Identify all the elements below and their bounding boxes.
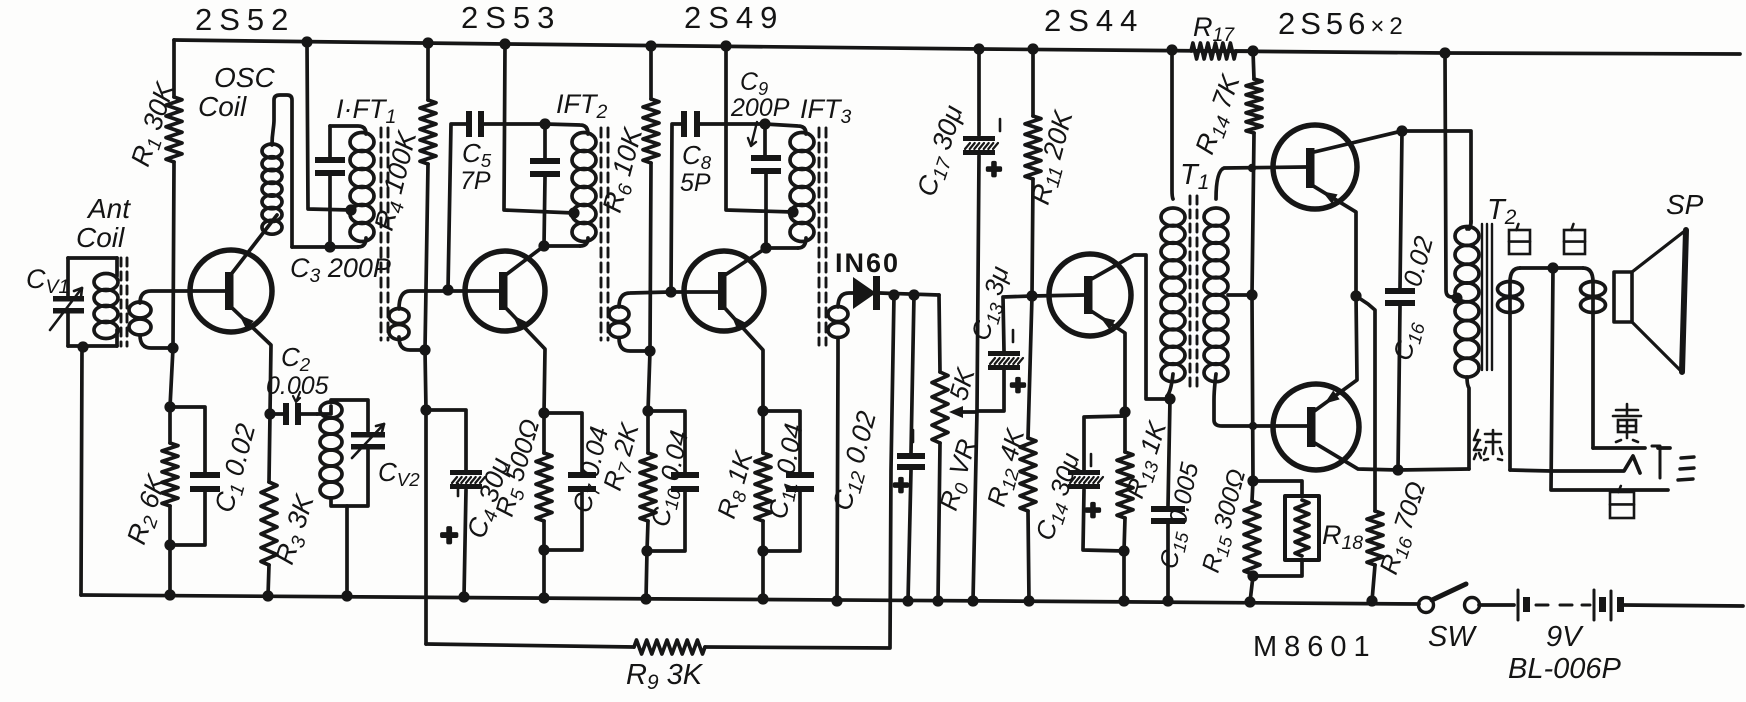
svg-text:+: +	[1010, 370, 1025, 400]
capacitor C7 0.04	[544, 413, 582, 472]
resistor R4 100K	[422, 37, 433, 48]
transistor Q2 2S53	[465, 251, 545, 331]
potentiometer R0 VR 5K	[939, 295, 940, 372]
svg-text:2S44: 2S44	[1044, 3, 1144, 38]
transistor Q3 2S49	[684, 251, 764, 331]
capacitor C3 200P	[328, 126, 332, 157]
svg-text:2S52: 2S52	[195, 2, 295, 37]
transformer IFT3 secondary	[828, 307, 848, 322]
transistor Q6 2S56 lower	[1273, 384, 1359, 470]
label shiro white top-left	[1516, 224, 1518, 230]
label shiro white bottom	[1618, 486, 1620, 492]
capacitor C11 0.04	[763, 411, 800, 472]
transformer IFT1 core	[380, 128, 383, 340]
capacitor C17 30u	[973, 43, 984, 54]
resistor R13 1K	[1123, 412, 1127, 452]
svg-text:OSC: OSC	[214, 62, 275, 93]
resistor R12 4K	[1028, 296, 1032, 438]
antenna coil secondary	[129, 302, 151, 318]
transformer IFT3 core	[818, 128, 821, 345]
resistor R1 30K	[172, 40, 176, 97]
svg-text:SW: SW	[1428, 621, 1477, 653]
svg-text:BL-006P: BL-006P	[1508, 653, 1622, 685]
svg-text:5P: 5P	[680, 169, 711, 197]
wire IFT3 B+ tap feed	[720, 40, 731, 51]
emitter group R5 500ohm + C7	[538, 407, 549, 418]
svg-text:+: +	[986, 154, 1001, 184]
wire speaker yellow lead	[1593, 446, 1645, 450]
wire supply to T2 center tap	[1439, 47, 1450, 58]
wire AGC feed line down	[424, 410, 428, 644]
transistor Q1 2S52	[190, 250, 272, 332]
base group R7 2K + C10	[648, 351, 650, 411]
svg-text:+: +	[893, 470, 908, 500]
transformer IFT1 secondary	[389, 309, 409, 324]
resistor R15 300ohm	[1252, 481, 1253, 501]
transformer T1 secondary	[1216, 167, 1306, 199]
capacitor C9 200P	[763, 124, 767, 155]
svg-text:Coil: Coil	[198, 91, 247, 122]
svg-text:200P: 200P	[730, 94, 790, 122]
svg-text:M8601: M8601	[1253, 631, 1377, 663]
capacitor C13 3u	[977, 370, 1004, 411]
resistor R3 3K	[269, 414, 270, 482]
battery 9V BL-006P	[1479, 603, 1514, 607]
label midori green	[1474, 430, 1481, 459]
antenna coil primary	[68, 256, 117, 260]
emitter group R8 1K + C11	[757, 405, 768, 416]
wire top supply rail	[174, 40, 1740, 54]
resistor R2 6K	[164, 401, 175, 412]
capacitor C4 30u	[426, 410, 466, 470]
switch SW	[1419, 598, 1434, 613]
svg-text:2S53: 2S53	[461, 0, 561, 35]
node top rail junction IFT1 feed	[301, 36, 312, 47]
svg-text:+: +	[440, 519, 458, 552]
wire bottom ground rail	[81, 595, 1419, 604]
capacitor C12 0.02	[911, 295, 914, 453]
svg-text:R9 3K: R9 3K	[626, 659, 704, 694]
svg-text:7P: 7P	[460, 167, 491, 195]
oscillator coil	[262, 144, 282, 158]
resistor R18 (box)	[1253, 481, 1302, 496]
capacitor C10 0.04	[648, 411, 685, 472]
resistor R17	[1191, 43, 1236, 59]
transformer T1 core	[1189, 196, 1192, 392]
svg-text:0.005: 0.005	[266, 372, 329, 400]
node T1 secondary center tap	[1228, 293, 1252, 297]
capacitor C14 30u	[1084, 416, 1125, 470]
capacitor Cv2 variable	[351, 432, 385, 438]
transformer T1 primary	[1166, 44, 1177, 55]
speaker SP	[1614, 272, 1632, 322]
capacitor C16 0.02	[1400, 131, 1402, 288]
transformer T2 primary	[1455, 227, 1479, 246]
resistor R14 7K	[1253, 51, 1254, 79]
antenna coil core	[120, 258, 123, 346]
svg-text:2S49: 2S49	[684, 0, 784, 35]
capacitor C2 0.005	[264, 408, 275, 419]
svg-text:9V: 9V	[1546, 621, 1584, 653]
transformer IFT3 primary	[765, 124, 806, 134]
capacitor Cv1 variable	[66, 258, 70, 297]
wire IFT2 B+ tap feed	[499, 38, 510, 49]
svg-text:C3 200P: C3 200P	[290, 253, 391, 287]
transformer IFT2 secondary	[609, 307, 629, 322]
node base line junction 2S52	[170, 348, 173, 407]
capacitor C6 (IFT2 internal)	[543, 124, 547, 158]
capacitor C1 0.02	[170, 407, 205, 472]
T2 secondary winding right	[1583, 268, 1593, 448]
transistor Q5 2S56 upper	[1273, 125, 1357, 209]
svg-text:Coil: Coil	[76, 222, 125, 253]
transformer IFT2 primary	[545, 124, 588, 134]
transformer IFT1 primary	[330, 126, 366, 134]
svg-text:+: +	[1085, 495, 1100, 525]
resistor R6 10K	[645, 40, 656, 51]
capacitor C15 0.005	[1168, 399, 1170, 506]
oscillator tank coil	[317, 406, 331, 414]
svg-text:IN60: IN60	[835, 248, 900, 278]
resistor R11 20K	[1027, 43, 1038, 54]
label shiro white top-right	[1571, 224, 1573, 230]
transformer IFT2 core	[600, 128, 603, 340]
svg-text:Ant: Ant	[86, 193, 131, 224]
wire speaker lead with chevron	[1551, 456, 1640, 473]
connector marks	[1652, 446, 1660, 478]
transformer T2 core	[1481, 224, 1483, 370]
wire AGC return + R9 3K	[705, 295, 894, 648]
T2 secondary winding left	[1510, 268, 1520, 470]
diode D1 1N60	[853, 277, 876, 309]
wire T2 primary top feed	[1402, 131, 1471, 229]
resistor R16 70ohm	[1356, 296, 1375, 511]
ground drop from antenna coil	[77, 341, 88, 352]
svg-text:SP: SP	[1666, 189, 1704, 220]
wire speaker white lead center	[1551, 268, 1668, 490]
label ki yellow	[1613, 404, 1641, 416]
capacitor C5 7P	[466, 111, 472, 137]
transistor Q4 2S44	[1049, 254, 1131, 336]
capacitor C8 5P	[681, 111, 687, 137]
